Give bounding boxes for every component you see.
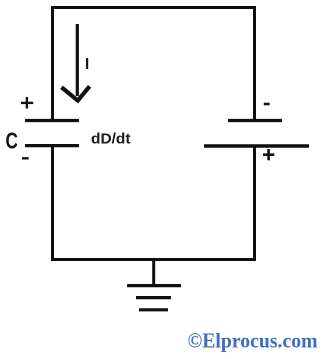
battery positive long plate: [204, 144, 309, 147]
battery negative short plate: [228, 119, 282, 122]
wire left lower: [51, 147, 54, 262]
ground: [127, 259, 181, 310]
wire right lower: [253, 147, 256, 262]
capacitor C top plate: [25, 119, 79, 122]
current arrow I: [62, 24, 90, 101]
wire bottom rail: [51, 258, 256, 261]
svg-text:dD/dt: dD/dt: [91, 130, 131, 147]
label I: [86, 58, 88, 69]
label - (capacitor bottom polarity): [22, 157, 29, 159]
svg-text:C: C: [6, 128, 18, 154]
label - (battery top polarity): [264, 103, 270, 106]
svg-text:©Elprocus.com: ©Elprocus.com: [188, 329, 318, 353]
wire left upper: [51, 6, 54, 120]
wire right upper: [253, 6, 256, 120]
wire top rail: [51, 6, 256, 9]
label + (capacitor top polarity): [21, 97, 33, 109]
capacitor C bottom plate: [25, 144, 79, 147]
label + (battery bottom polarity): [263, 149, 274, 160]
